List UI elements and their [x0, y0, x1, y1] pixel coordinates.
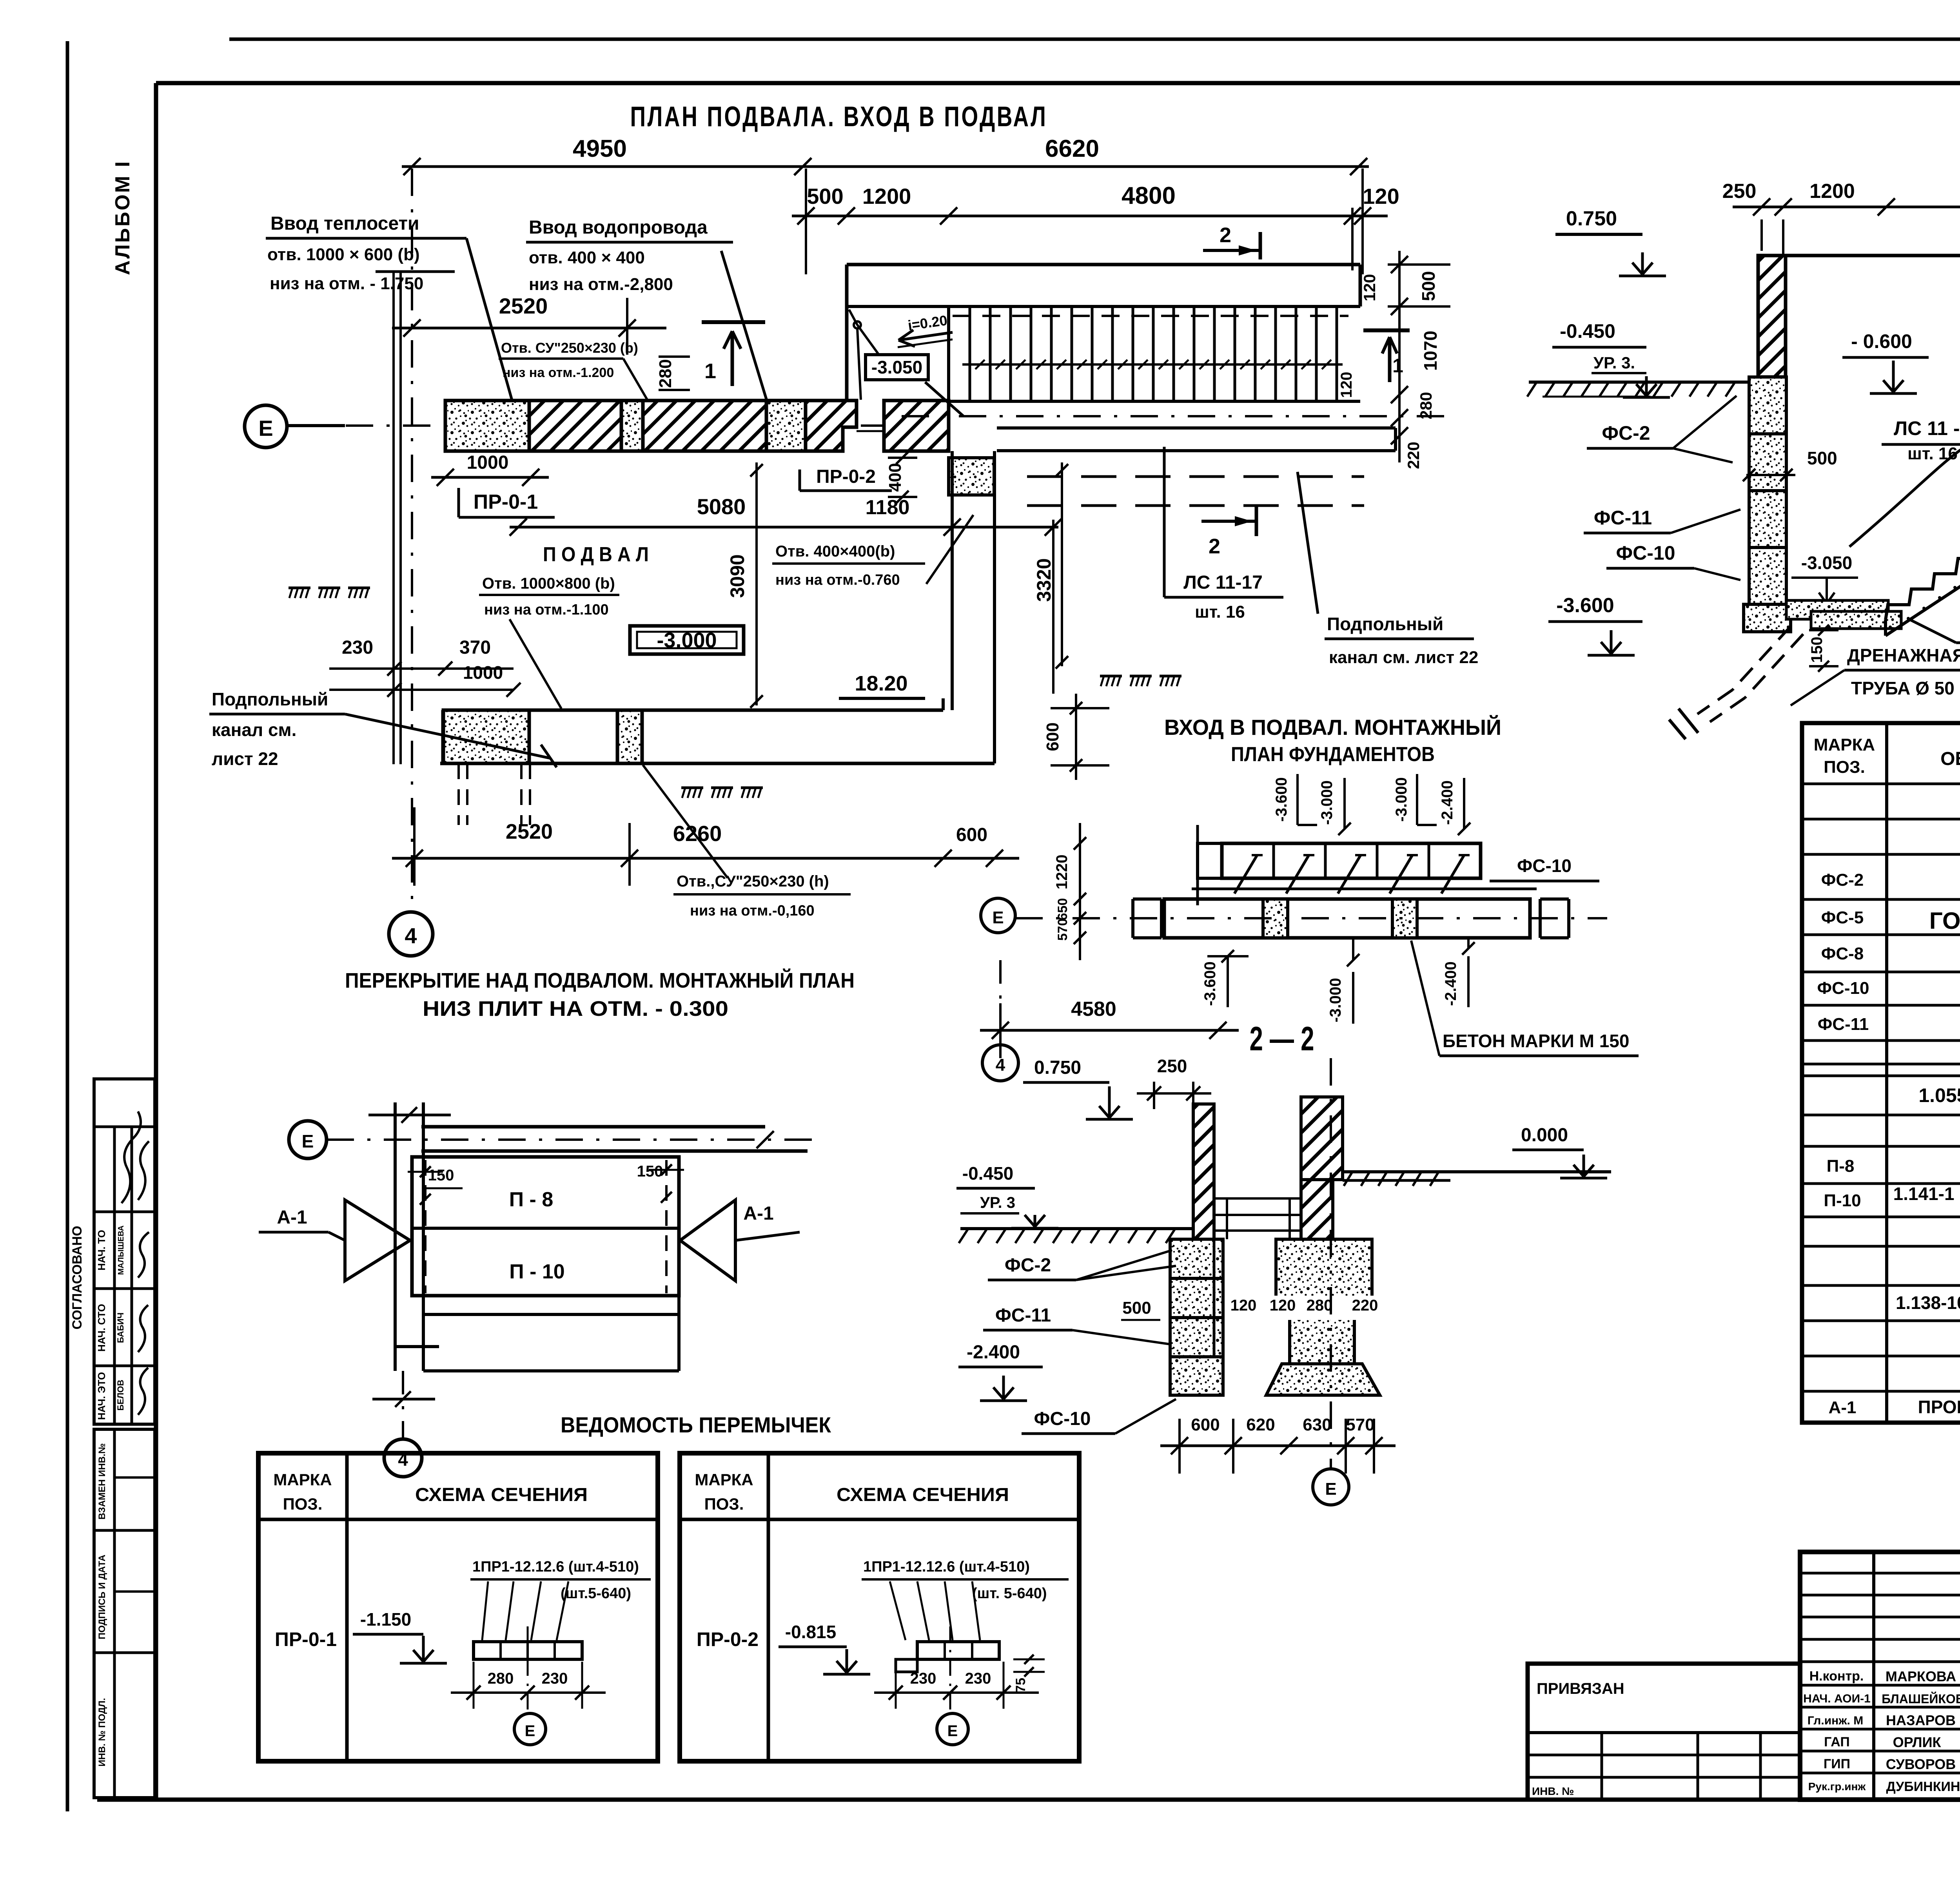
svg-text:ПОЗ.: ПОЗ. [1824, 758, 1865, 777]
svg-text:СХЕМА СЕЧЕНИЯ: СХЕМА СЕЧЕНИЯ [415, 1485, 588, 1505]
dimension 6620 [793, 165, 1369, 168]
svg-text:Гл.инж. М: Гл.инж. М [1808, 1714, 1863, 1727]
table2 axis circle E [949, 1626, 951, 1712]
svg-text:Подпольный: Подпольный [1327, 614, 1443, 634]
svg-text:-3.050: -3.050 [1801, 553, 1852, 573]
svg-text:БЕТОН МАРКИ М 150: БЕТОН МАРКИ М 150 [1443, 1031, 1629, 1051]
svg-text:Отв. 400×400(b): Отв. 400×400(b) [775, 543, 895, 560]
svg-text:МАЛЫШЕВА: МАЛЫШЕВА [117, 1225, 125, 1275]
foundation dim 4580 [980, 1029, 1239, 1032]
svg-text:канал см.: канал см. [212, 720, 296, 740]
svg-text:-3.600: -3.600 [1201, 961, 1219, 1006]
svg-text:БЛАШЕЙКОВ: БЛАШЕЙКОВ [1882, 1692, 1960, 1706]
svg-text:низ на отм.-2,800: низ на отм.-2,800 [529, 275, 673, 294]
svg-text:ОБОЗНАЧЕНИЕ: ОБОЗНАЧЕНИЕ [1940, 749, 1960, 769]
sheet outer top line [229, 38, 1960, 41]
svg-text:1.055.1-1: 1.055.1-1 [1918, 1084, 1960, 1106]
svg-text:120: 120 [1230, 1297, 1257, 1314]
svg-text:Е: Е [525, 1722, 535, 1740]
svg-text:ПРИВЯЗАН: ПРИВЯЗАН [1537, 1680, 1624, 1697]
svg-text:280: 280 [656, 359, 675, 388]
ground line left of wall [1529, 381, 1749, 384]
dimension 4950 [402, 165, 813, 168]
axis E horizontal dash line [289, 424, 894, 427]
bottom dim chain 2-2 [1160, 1445, 1396, 1447]
svg-text:отв. 400 × 400: отв. 400 × 400 [529, 248, 645, 267]
dim 600 rotated right [1075, 694, 1077, 780]
svg-text:ГОСТ 13579-78: ГОСТ 13579-78 [1929, 908, 1960, 934]
svg-text:230: 230 [910, 1670, 936, 1687]
dimension row 500-1200-4800-120 [792, 215, 1388, 218]
svg-text:П-10: П-10 [1824, 1191, 1861, 1210]
svg-text:ПЛАН ФУНДАМЕНТОВ: ПЛАН ФУНДАМЕНТОВ [1231, 743, 1435, 766]
stipple block below pier [949, 458, 994, 495]
svg-text:НАЧ. АОИ-1: НАЧ. АОИ-1 [1803, 1692, 1871, 1705]
frame border left [154, 83, 158, 1800]
svg-text:600: 600 [956, 825, 987, 845]
table1 dims 280 230 [451, 1691, 606, 1694]
stamp agreement block [94, 1079, 155, 1424]
svg-text:Отв.,СУ"250×230 (h): Отв.,СУ"250×230 (h) [677, 873, 829, 890]
svg-text:-3.000: -3.000 [657, 629, 717, 652]
svg-text:Е: Е [1325, 1479, 1336, 1499]
dimension 2520 upper [392, 327, 666, 330]
svg-text:НАЧ. СТО: НАЧ. СТО [96, 1304, 107, 1352]
svg-text:120: 120 [1360, 274, 1379, 301]
landing node circle [854, 321, 861, 328]
svg-text:Отв. 1000×800 (b): Отв. 1000×800 (b) [482, 575, 615, 592]
svg-text:2: 2 [1220, 223, 1231, 247]
svg-text:2520: 2520 [499, 294, 548, 318]
svg-text:ПОЗ.: ПОЗ. [283, 1495, 323, 1513]
svg-text:ПР-0-1: ПР-0-1 [275, 1628, 337, 1650]
svg-text:-3.000: -3.000 [1327, 978, 1344, 1022]
svg-text:600: 600 [1191, 1415, 1220, 1434]
svg-text:ПЛАН ПОДВАЛА. ВХОД В ПОДВАЛ: ПЛАН ПОДВАЛА. ВХОД В ПОДВАЛ [630, 101, 1048, 132]
axis 4 circle foundation [982, 1045, 1018, 1081]
ground line right 2-2 [1343, 1170, 1611, 1173]
svg-text:-3.000: -3.000 [1393, 777, 1410, 821]
svg-text:П-8: П-8 [1827, 1157, 1855, 1176]
svg-text:П О Д В А Л: П О Д В А Л [543, 543, 649, 566]
wall left verticals above E [392, 272, 395, 764]
stairs of section 1-1 [1886, 373, 1960, 620]
slab axis E [289, 1121, 327, 1158]
frame border bottom [97, 1798, 1960, 1802]
svg-text:низ на отм.-1.100: низ на отм.-1.100 [484, 602, 609, 618]
podpolny kanal right leader [1298, 472, 1318, 614]
table1 axis line and circle E [527, 1626, 529, 1712]
svg-text:250: 250 [1722, 180, 1757, 203]
svg-text:СУВОРОВ: СУВОРОВ [1886, 1756, 1956, 1772]
svg-text:600: 600 [1043, 722, 1062, 751]
svg-text:280: 280 [488, 1670, 514, 1687]
svg-text:ТРУБА Ø 50: ТРУБА Ø 50 [1851, 678, 1955, 698]
svg-text:канал см. лист 22: канал см. лист 22 [1329, 648, 1478, 667]
axis circle 4 [389, 912, 433, 956]
svg-text:Ввод теплосети: Ввод теплосети [270, 213, 419, 234]
svg-text:500: 500 [1122, 1298, 1151, 1318]
svg-text:Подпольный: Подпольный [212, 689, 328, 709]
svg-text:Е: Е [258, 416, 273, 441]
titleblock signature rows [1800, 1684, 1960, 1687]
titleblock upper grid rows [1800, 1572, 1960, 1575]
svg-text:ФС-11: ФС-11 [995, 1305, 1051, 1326]
hole 400x400 leader [926, 515, 973, 584]
svg-text:-2.400: -2.400 [1442, 961, 1459, 1006]
svg-text:ФС-10: ФС-10 [1034, 1409, 1091, 1429]
svg-text:НАЗАРОВ: НАЗАРОВ [1886, 1712, 1956, 1728]
basement floor slab [1786, 600, 1888, 619]
treads bottom line [949, 400, 1360, 403]
svg-text:ВЗАМЕН ИНВ.№: ВЗАМЕН ИНВ.№ [97, 1443, 107, 1520]
channel dashed lines right [1027, 475, 1364, 478]
svg-text:0.000: 0.000 [1521, 1125, 1568, 1146]
foundation axis E [981, 898, 1015, 933]
wall blocks below ground [1749, 377, 1786, 434]
anchor A-1 right [680, 1200, 735, 1281]
svg-text:низ на отм.-0.760: низ на отм.-0.760 [775, 572, 900, 588]
svg-text:низ на отм.-1.200: низ на отм.-1.200 [503, 365, 614, 380]
svg-text:МАРКОВА: МАРКОВА [1886, 1668, 1956, 1684]
svg-text:230: 230 [542, 1670, 568, 1687]
axis circle E [245, 405, 287, 448]
svg-text:ПР-0-2: ПР-0-2 [816, 466, 876, 487]
anchor A-1 left [345, 1200, 410, 1281]
table1 leader lines [482, 1581, 488, 1640]
frame border top [156, 81, 1960, 85]
svg-text:570: 570 [1055, 919, 1070, 941]
mid dims 2-2 [1227, 1296, 1384, 1320]
svg-text:150: 150 [637, 1163, 663, 1180]
dim 5080 and 1180 [510, 526, 1058, 529]
upper block row FS-10 [1222, 843, 1481, 878]
svg-text:ВЕДОМОСТЬ ПЕРЕМЫЧЕК: ВЕДОМОСТЬ ПЕРЕМЫЧЕК [561, 1412, 831, 1437]
svg-text:-3.050: -3.050 [871, 357, 922, 377]
svg-text:низ на отм.-0,160: низ на отм.-0,160 [690, 903, 815, 919]
svg-text:120: 120 [1338, 372, 1355, 398]
titleblock outer [1800, 1552, 1960, 1800]
svg-text:ЛС 11-17: ЛС 11-17 [1183, 572, 1263, 593]
svg-text:ГИП: ГИП [1824, 1757, 1850, 1771]
svg-text:220: 220 [1352, 1297, 1378, 1314]
svg-text:УР. 3: УР. 3 [980, 1194, 1015, 1211]
inlet teploset leader [466, 238, 514, 406]
panel hidden edge dashed [665, 1160, 668, 1293]
svg-text:ФС-2: ФС-2 [1602, 422, 1650, 444]
ground symbol mid [681, 787, 703, 789]
svg-text:6260: 6260 [673, 821, 722, 846]
inlet vodoprovod leader [721, 251, 768, 406]
svg-text:-0.450: -0.450 [962, 1163, 1013, 1184]
svg-text:-3.600: -3.600 [1273, 777, 1290, 821]
svg-text:шт. 16: шт. 16 [1907, 444, 1958, 463]
panel rectangle [412, 1157, 679, 1296]
svg-text:Е: Е [302, 1131, 314, 1151]
svg-text:СХЕМА СЕЧЕНИЯ: СХЕМА СЕЧЕНИЯ [837, 1485, 1009, 1505]
svg-text:Отв. СУ"250×230 (b): Отв. СУ"250×230 (b) [501, 340, 638, 356]
svg-text:ФС-5: ФС-5 [1821, 908, 1864, 927]
svg-text:шт. 16: шт. 16 [1195, 602, 1245, 622]
svg-text:МАРКА: МАРКА [1814, 735, 1875, 754]
svg-text:4580: 4580 [1071, 998, 1116, 1021]
svg-text:4: 4 [405, 923, 417, 948]
dim 1000 with PR-0-1 [431, 476, 549, 479]
svg-text:280: 280 [1417, 392, 1435, 419]
section mark 1 right [1363, 328, 1410, 332]
svg-text:220: 220 [1404, 442, 1423, 469]
svg-text:ПОЗ.: ПОЗ. [704, 1495, 744, 1513]
svg-text:НАЧ. ЭТО: НАЧ. ЭТО [96, 1372, 107, 1420]
ground line left 2-2 [960, 1227, 1193, 1230]
svg-text:Е: Е [992, 908, 1004, 927]
svg-text:1.141-1 вып. 62: 1.141-1 вып. 62 [1893, 1184, 1960, 1204]
slab wall bottom [395, 1345, 439, 1348]
svg-text:650: 650 [1055, 898, 1070, 921]
svg-text:4950: 4950 [573, 135, 627, 162]
svg-text:ФС-2: ФС-2 [1005, 1255, 1051, 1276]
svg-text:-0.450: -0.450 [1560, 320, 1615, 342]
drainage pipe dashed [1733, 626, 1791, 690]
svg-text:ФС-10: ФС-10 [1616, 542, 1675, 564]
svg-text:1: 1 [1392, 355, 1403, 377]
svg-text:0.750: 0.750 [1566, 207, 1617, 230]
hole SU bottom leader [643, 765, 728, 878]
svg-text:ДРЕНАЖНАЯ: ДРЕНАЖНАЯ [1847, 645, 1960, 665]
axis 4 vertical dash line [411, 169, 413, 909]
dim 3320 rotated [1061, 462, 1063, 666]
right wall 2-2 [1301, 1097, 1343, 1180]
right vertical dim chain of pit [1398, 251, 1401, 462]
pit axis dash-dot [902, 415, 1450, 417]
left wall 2-2 [1193, 1104, 1214, 1239]
svg-text:2: 2 [1209, 535, 1220, 558]
svg-text:ПОДПИСЬ И ДАТА: ПОДПИСЬ И ДАТА [97, 1555, 107, 1639]
svg-text:МАРКА: МАРКА [273, 1470, 332, 1489]
svg-text:-2.400: -2.400 [967, 1342, 1020, 1363]
svg-text:Ввод водопровода: Ввод водопровода [529, 217, 708, 238]
wall column above ground [1758, 256, 1786, 377]
svg-text:500: 500 [807, 184, 843, 208]
svg-text:0.750: 0.750 [1034, 1057, 1081, 1078]
svg-text:П - 10: П - 10 [509, 1260, 564, 1283]
leader from -3.050 box [925, 382, 964, 416]
slab axis 4 circle [384, 1439, 422, 1477]
bottom dim 2520 6260 600 [392, 857, 1019, 860]
svg-text:(шт.5-640): (шт.5-640) [561, 1585, 631, 1602]
ground symbol left [289, 587, 310, 589]
table2 leader lines [890, 1581, 906, 1640]
stair treads [947, 306, 950, 401]
svg-text:3320: 3320 [1033, 558, 1055, 602]
svg-text:отв. 1000 × 600 (b): отв. 1000 × 600 (b) [267, 245, 420, 264]
svg-text:280: 280 [1307, 1297, 1333, 1314]
svg-text:5080: 5080 [697, 494, 746, 519]
svg-text:ФС-8: ФС-8 [1821, 944, 1864, 963]
svg-text:1: 1 [704, 359, 716, 383]
right foundation blocks 2-2 [1276, 1239, 1372, 1301]
svg-text:МАРКА: МАРКА [695, 1470, 753, 1489]
door opening threshold [857, 430, 884, 432]
svg-text:ПР-0-1: ПР-0-1 [474, 491, 538, 513]
svg-text:А-1: А-1 [277, 1207, 307, 1228]
titleblock upper grid columns [1872, 1552, 1875, 1800]
svg-text:18.20: 18.20 [855, 672, 907, 695]
svg-text:3090: 3090 [726, 554, 748, 598]
dim 3090 rotated [755, 462, 758, 705]
svg-text:250: 250 [1157, 1056, 1187, 1076]
svg-text:2 — 2: 2 — 2 [1250, 1020, 1314, 1058]
svg-text:1ПР1-12.12.6 (шт.4-510): 1ПР1-12.12.6 (шт.4-510) [863, 1559, 1030, 1575]
svg-text:ФС-11: ФС-11 [1818, 1015, 1869, 1034]
svg-text:1220: 1220 [1053, 855, 1071, 890]
retaining wall lines below pit [997, 426, 1396, 430]
svg-text:ДУБИНКИН: ДУБИНКИН [1886, 1779, 1960, 1794]
svg-text:1000: 1000 [467, 452, 509, 473]
svg-text:БЕЛОВ: БЕЛОВ [116, 1380, 125, 1411]
section top slab line [1786, 254, 1960, 257]
svg-text:ФС-10: ФС-10 [1517, 856, 1572, 876]
svg-text:-1.150: -1.150 [360, 1609, 411, 1630]
svg-text:1200: 1200 [1809, 180, 1855, 203]
stair brace curve [1849, 312, 1960, 547]
foundation left dims rotated [1079, 823, 1081, 960]
svg-text:ПР-0-2: ПР-0-2 [697, 1628, 759, 1650]
svg-text:6620: 6620 [1045, 135, 1099, 162]
svg-text:ОРЛИК: ОРЛИК [1893, 1734, 1942, 1750]
svg-text:400: 400 [886, 463, 905, 491]
svg-text:1070: 1070 [1420, 331, 1441, 371]
svg-text:ФС-10: ФС-10 [1817, 979, 1869, 998]
table2 lintel bar [917, 1642, 999, 1659]
table1 lintel bar [474, 1642, 582, 1659]
hole 1000x800 leader [510, 619, 561, 709]
svg-text:БАБИЧ: БАБИЧ [116, 1312, 125, 1343]
level box -3.000 [630, 626, 744, 654]
slope arrow i=0.20 [898, 332, 953, 340]
svg-text:230: 230 [965, 1670, 991, 1687]
pit outline top [847, 263, 1360, 266]
svg-text:ЛС 11 - 17: ЛС 11 - 17 [1894, 417, 1960, 439]
level box -3.050 [866, 355, 928, 380]
ground symbol right [1100, 675, 1122, 678]
svg-text:А-1: А-1 [743, 1203, 773, 1224]
spec table grid [1802, 723, 1960, 1423]
svg-text:150: 150 [428, 1167, 454, 1184]
stamp archive block [94, 1429, 155, 1798]
svg-text:630: 630 [1303, 1415, 1331, 1434]
treads top line [949, 305, 1360, 308]
south wall band [443, 709, 943, 712]
section dim row 250 1200 4800 120 [1733, 206, 1960, 208]
svg-text:500: 500 [1418, 271, 1439, 301]
ground hatch left [1527, 382, 1537, 397]
podpolny kanal leader left [345, 714, 551, 758]
svg-text:А-1: А-1 [1829, 1398, 1857, 1417]
svg-text:НИЗ ПЛИТ НА ОТМ. - 0.300: НИЗ ПЛИТ НА ОТМ. - 0.300 [423, 997, 728, 1021]
svg-text:П - 8: П - 8 [509, 1188, 554, 1211]
left foundation blocks 2-2 [1170, 1239, 1223, 1278]
svg-text:-3.000: -3.000 [1318, 780, 1336, 825]
svg-text:370: 370 [459, 637, 491, 658]
svg-text:(шт. 5-640): (шт. 5-640) [972, 1585, 1047, 1602]
svg-text:-3.600: -3.600 [1556, 594, 1614, 617]
main block row on axis E [1164, 899, 1530, 938]
vedomost table 2 [680, 1453, 1079, 1761]
sheet outer left line [66, 41, 69, 1811]
svg-text:500: 500 [1807, 448, 1837, 468]
svg-text:120: 120 [1270, 1297, 1296, 1314]
svg-text:ПЕРЕКРЫТИЕ НАД ПОДВАЛОМ. МОН: ПЕРЕКРЫТИЕ НАД ПОДВАЛОМ. МОНТАЖНЫЙ ПЛАН [345, 968, 855, 992]
svg-text:1180: 1180 [866, 496, 910, 519]
svg-text:Е: Е [947, 1722, 958, 1740]
svg-text:150: 150 [1808, 637, 1826, 663]
landing outline [847, 305, 949, 308]
svg-text:ВХОД В ПОДВАЛ. МОНТАЖНЫЙ: ВХОД В ПОДВАЛ. МОНТАЖНЫЙ [1164, 715, 1501, 740]
wall pier right of door [884, 401, 949, 451]
pit floor slab [1811, 611, 1901, 629]
svg-text:620: 620 [1246, 1415, 1275, 1434]
section mark 1 left [702, 320, 765, 324]
slab wall top lines [421, 1125, 765, 1129]
svg-text:лист 22: лист 22 [212, 749, 278, 769]
subfloor channel stubs [457, 763, 460, 825]
svg-text:1000: 1000 [463, 662, 503, 683]
table2 dims 230 230 75 [874, 1691, 1039, 1694]
section mark 2 top [1203, 249, 1260, 252]
svg-text:Рук.гр.инж: Рук.гр.инж [1808, 1780, 1866, 1793]
svg-text:ИНВ. №: ИНВ. № [1532, 1785, 1574, 1797]
svg-text:1ПР1-12.12.6 (шт.4-510): 1ПР1-12.12.6 (шт.4-510) [472, 1559, 639, 1575]
svg-text:2520: 2520 [506, 820, 553, 843]
svg-text:ИНВ. № ПОДЛ.: ИНВ. № ПОДЛ. [97, 1698, 107, 1767]
svg-text:ГАП: ГАП [1824, 1735, 1850, 1749]
svg-text:УР. 3.: УР. 3. [1593, 353, 1635, 372]
axis E circle 2-2 [1313, 1469, 1349, 1505]
svg-text:-0.815: -0.815 [785, 1622, 836, 1642]
svg-text:ФС-11: ФС-11 [1594, 507, 1652, 529]
svg-text:75: 75 [1013, 1678, 1028, 1693]
room right wall verticals [951, 451, 954, 710]
steps between walls 2-2 [1214, 1197, 1301, 1200]
svg-text:Н.контр.: Н.контр. [1809, 1669, 1864, 1684]
svg-text:4800: 4800 [1122, 182, 1176, 209]
svg-text:НАЧ. ТО: НАЧ. ТО [96, 1230, 107, 1271]
section mark 2 bottom [1201, 520, 1256, 523]
svg-text:- 0.600: - 0.600 [1851, 330, 1912, 352]
wall band E axis [445, 401, 529, 451]
svg-text:230: 230 [342, 637, 373, 658]
svg-text:СОГЛАСОВАНО: СОГЛАСОВАНО [70, 1226, 85, 1330]
slab wall verticals left [394, 1102, 397, 1371]
vedomost table 1 [258, 1453, 658, 1761]
svg-text:АЛЬБОМ I: АЛЬБОМ I [111, 160, 134, 275]
svg-text:1200: 1200 [862, 184, 911, 208]
svg-text:570: 570 [1346, 1415, 1374, 1434]
treads mid line with ticks [962, 363, 1343, 366]
privyazan block [1528, 1664, 1800, 1800]
svg-text:120: 120 [1363, 184, 1399, 208]
svg-text:4: 4 [996, 1055, 1005, 1075]
svg-text:ФС-2: ФС-2 [1821, 870, 1864, 890]
treads dashed upper line [953, 315, 1348, 317]
stamp signature scribbles [122, 1111, 141, 1203]
svg-text:1.138-10 вып.1: 1.138-10 вып.1 [1896, 1293, 1960, 1313]
svg-text:ПРОЕКТ , ЛИСТ 27: ПРОЕКТ , ЛИСТ 27 [1918, 1397, 1960, 1417]
svg-text:-2.400: -2.400 [1439, 780, 1456, 825]
